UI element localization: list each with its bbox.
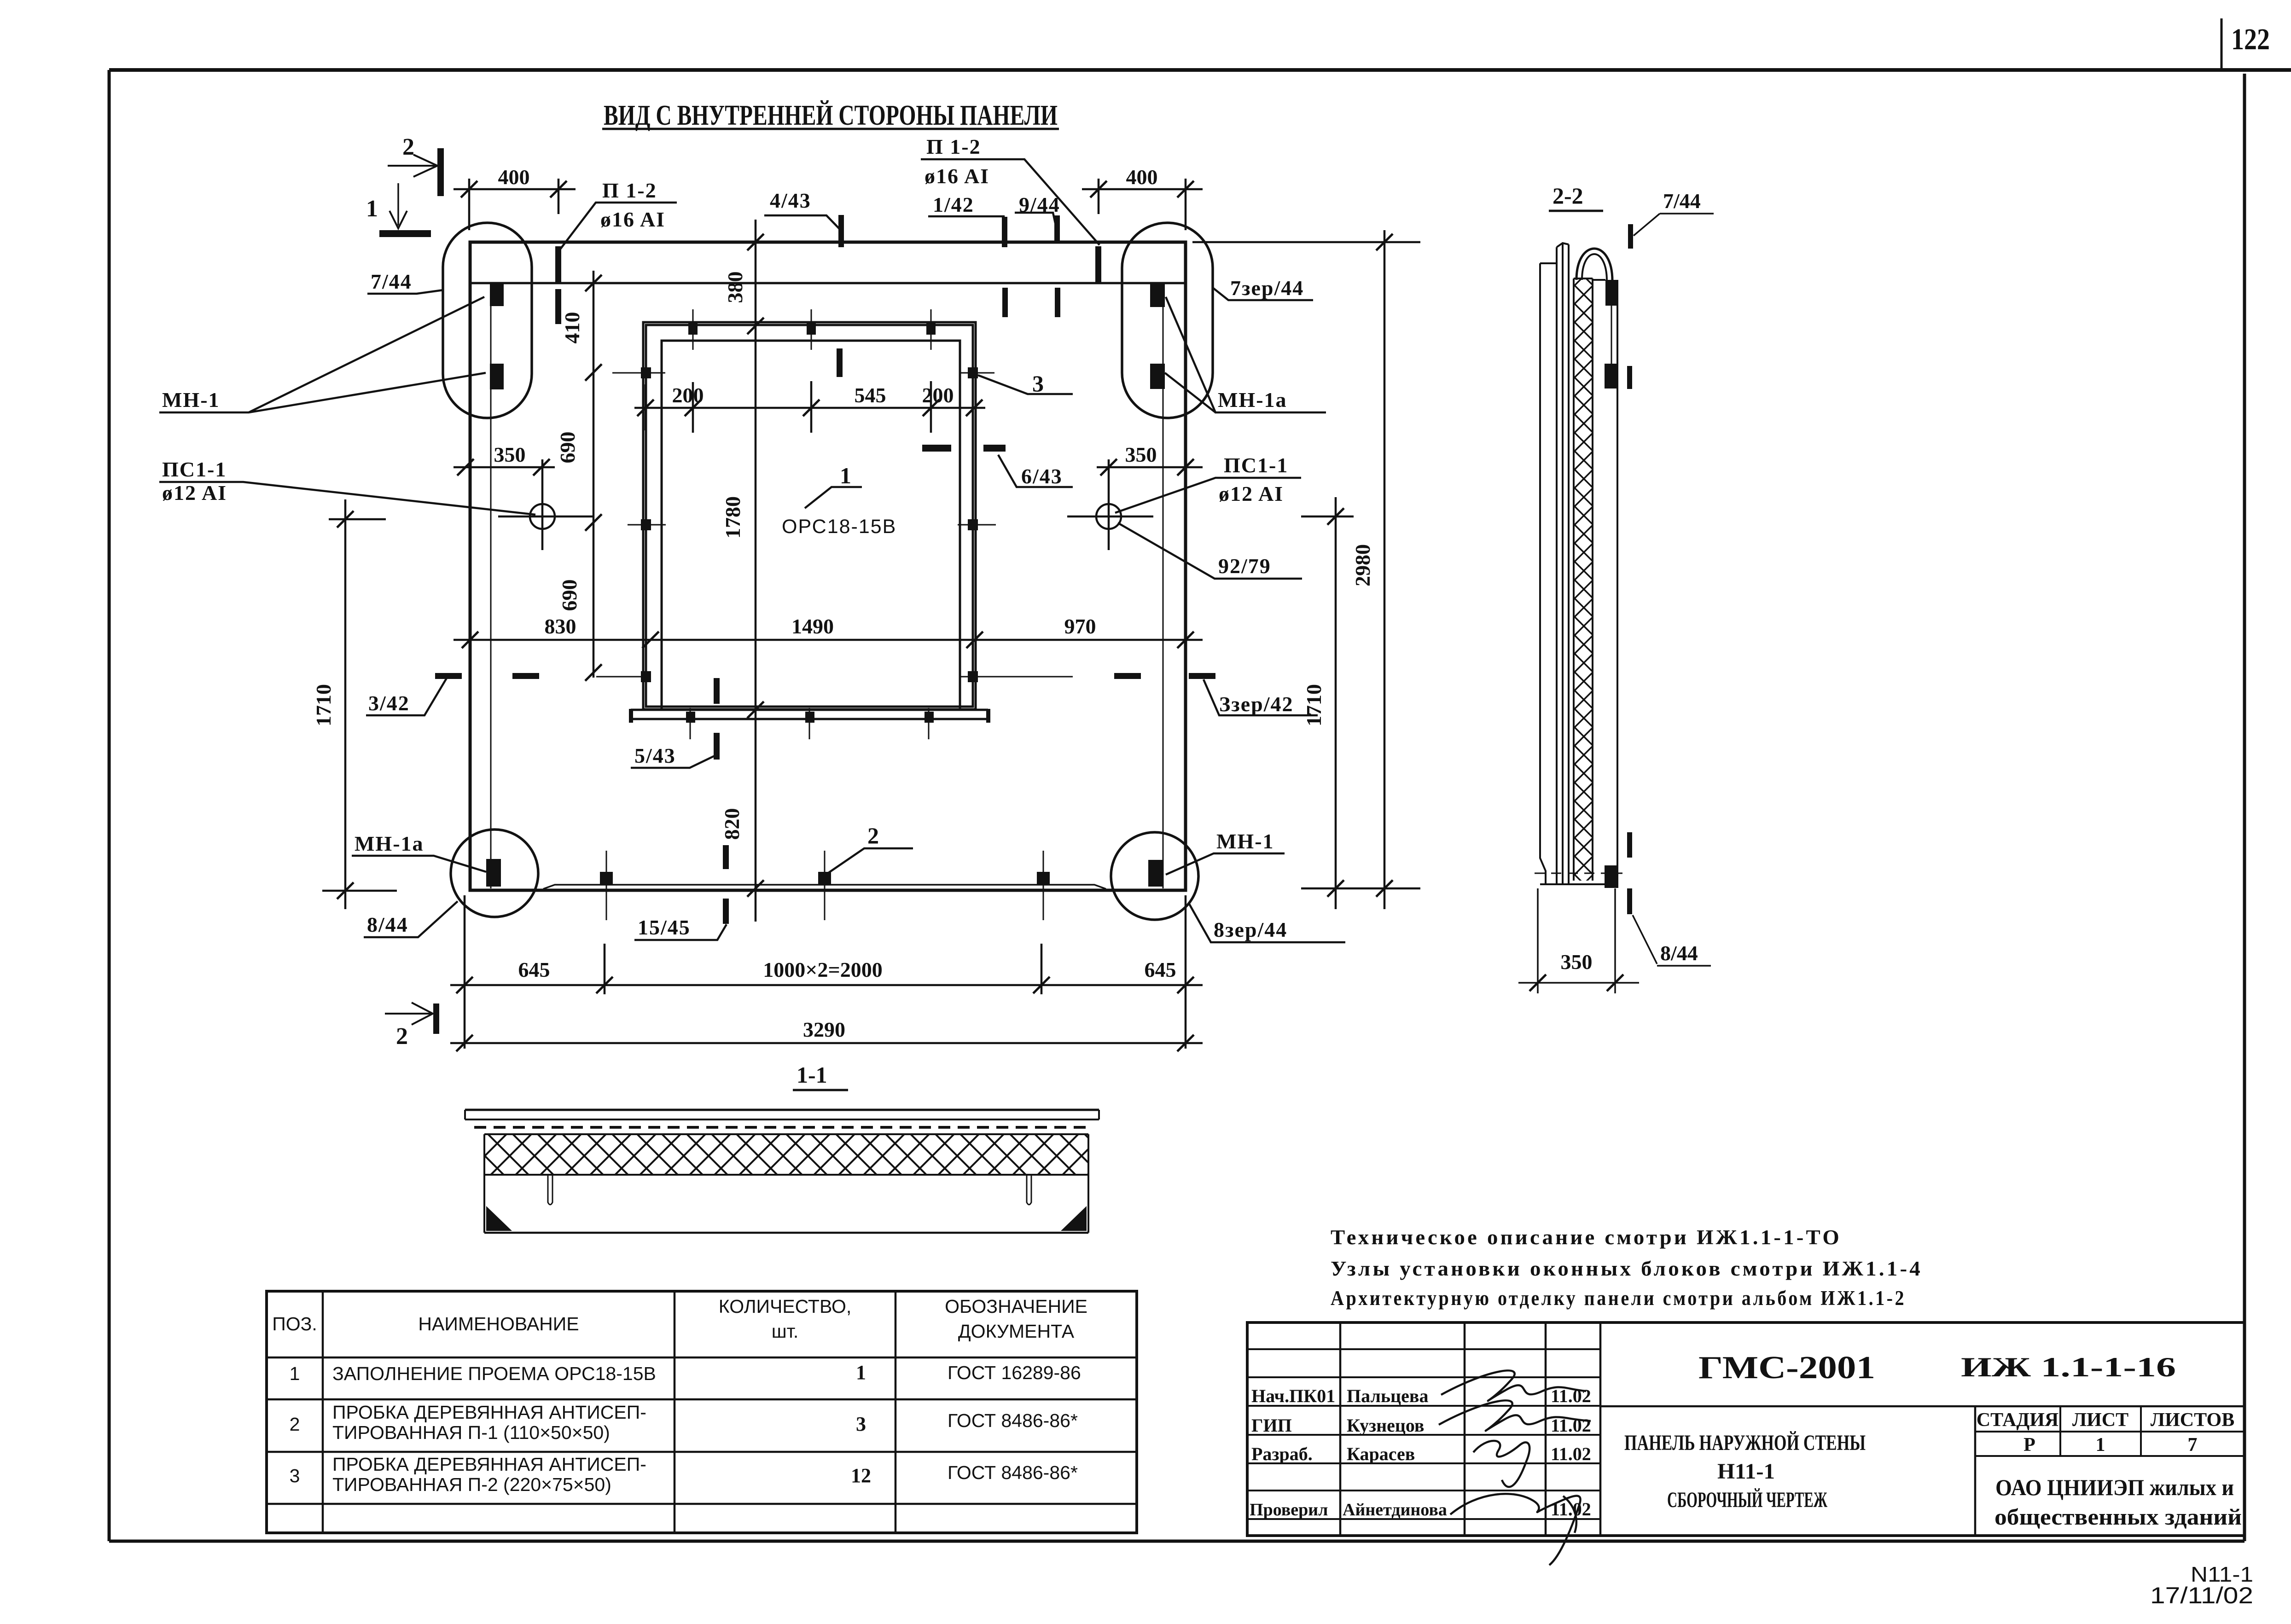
svg-text:ПАНЕЛЬ НАРУЖНОЙ СТЕНЫ: ПАНЕЛЬ НАРУЖНОЙ СТЕНЫ [1624, 1431, 1866, 1455]
svg-text:шт.: шт. [772, 1321, 799, 1342]
svg-text:7/44: 7/44 [371, 270, 412, 293]
svg-text:общественных зданий: общественных зданий [1994, 1504, 2242, 1530]
svg-text:11.02: 11.02 [1551, 1444, 1591, 1464]
svg-text:ГОСТ 16289-86: ГОСТ 16289-86 [948, 1362, 1081, 1383]
svg-text:ГОСТ 8486-86*: ГОСТ 8486-86* [948, 1410, 1078, 1431]
svg-text:МН-1: МН-1 [162, 388, 220, 412]
svg-text:200: 200 [672, 383, 704, 407]
svg-text:3/42: 3/42 [368, 691, 410, 715]
svg-text:12: 12 [851, 1464, 871, 1487]
svg-text:СБОРОЧНЫЙ ЧЕРТЕЖ: СБОРОЧНЫЙ ЧЕРТЕЖ [1667, 1488, 1827, 1512]
svg-text:МН-1: МН-1 [1216, 829, 1274, 853]
svg-text:ПОЗ.: ПОЗ. [272, 1313, 317, 1334]
svg-text:350: 350 [1561, 950, 1593, 974]
svg-text:830: 830 [545, 615, 576, 638]
svg-text:122: 122 [2231, 23, 2270, 56]
svg-text:6/43: 6/43 [1021, 464, 1063, 488]
svg-text:1000×2=2000: 1000×2=2000 [763, 958, 882, 981]
svg-text:2-2: 2-2 [1553, 183, 1583, 209]
svg-text:1780: 1780 [721, 496, 744, 539]
svg-text:ТИРОВАННАЯ П-2 (220×75×50): ТИРОВАННАЯ П-2 (220×75×50) [332, 1474, 611, 1495]
svg-text:645: 645 [518, 958, 550, 981]
svg-text:1710: 1710 [1302, 684, 1326, 726]
svg-text:КОЛИЧЕСТВО,: КОЛИЧЕСТВО, [719, 1296, 851, 1317]
svg-text:3: 3 [1032, 371, 1045, 396]
svg-text:690: 690 [558, 580, 581, 611]
svg-text:92/79: 92/79 [1218, 554, 1271, 578]
svg-text:П 1-2: П 1-2 [926, 135, 981, 158]
svg-text:1490: 1490 [791, 615, 834, 638]
svg-text:ОАО ЦНИИЭП жилых и: ОАО ЦНИИЭП жилых и [1995, 1474, 2234, 1500]
svg-text:ЛИСТОВ: ЛИСТОВ [2151, 1409, 2234, 1431]
svg-text:2: 2 [396, 1023, 408, 1050]
svg-text:4/43: 4/43 [770, 189, 811, 212]
svg-text:1: 1 [366, 196, 378, 222]
svg-text:ø16 AI: ø16 AI [925, 164, 989, 188]
svg-text:7/44: 7/44 [1663, 189, 1701, 213]
svg-text:ОРС18-15В: ОРС18-15В [782, 516, 896, 538]
svg-text:ЗАПОЛНЕНИЕ ПРОЕМА ОРС18-15В: ЗАПОЛНЕНИЕ ПРОЕМА ОРС18-15В [332, 1363, 656, 1384]
svg-text:645: 645 [1145, 958, 1176, 981]
svg-text:Разраб.: Разраб. [1251, 1444, 1313, 1464]
svg-text:Архитектурную отделку панели с: Архитектурную отделку панели смотри альб… [1331, 1287, 1906, 1310]
svg-text:Ззер/42: Ззер/42 [1219, 692, 1294, 716]
svg-text:НАИМЕНОВАНИЕ: НАИМЕНОВАНИЕ [418, 1313, 579, 1334]
svg-text:ø16 AI: ø16 AI [600, 208, 665, 231]
svg-text:1-1: 1-1 [797, 1062, 827, 1088]
svg-text:970: 970 [1064, 615, 1096, 638]
svg-text:П 1-2: П 1-2 [602, 179, 657, 202]
svg-text:ИЖ 1.1-1-16: ИЖ 1.1-1-16 [1961, 1352, 2176, 1382]
svg-text:350: 350 [1125, 443, 1157, 466]
svg-text:545: 545 [855, 383, 886, 407]
svg-text:ТИРОВАННАЯ П-1 (110×50×50): ТИРОВАННАЯ П-1 (110×50×50) [332, 1422, 610, 1443]
svg-text:ОБОЗНАЧЕНИЕ: ОБОЗНАЧЕНИЕ [945, 1296, 1087, 1317]
svg-text:1: 1 [290, 1363, 300, 1384]
svg-text:1/42: 1/42 [933, 193, 974, 216]
svg-text:400: 400 [498, 165, 530, 189]
svg-text:Пальцева: Пальцева [1347, 1386, 1428, 1406]
svg-text:ДОКУМЕНТА: ДОКУМЕНТА [958, 1321, 1075, 1342]
svg-text:7: 7 [2188, 1434, 2198, 1456]
svg-text:ГМС-2001: ГМС-2001 [1698, 1350, 1875, 1386]
svg-text:5/43: 5/43 [634, 744, 676, 767]
svg-text:ПРОБКА ДЕРЕВЯННАЯ АНТИСЕП-: ПРОБКА ДЕРЕВЯННАЯ АНТИСЕП- [332, 1402, 646, 1423]
svg-text:Нач.ПК01: Нач.ПК01 [1251, 1386, 1335, 1406]
svg-text:17/11/02: 17/11/02 [2150, 1583, 2253, 1608]
svg-text:8/44: 8/44 [1660, 941, 1698, 965]
svg-text:Айнетдинова: Айнетдинова [1343, 1500, 1447, 1520]
svg-text:ø12 AI: ø12 AI [1219, 482, 1284, 505]
svg-text:ø12 AI: ø12 AI [162, 481, 227, 505]
svg-text:ГОСТ 8486-86*: ГОСТ 8486-86* [948, 1462, 1078, 1483]
svg-text:1: 1 [856, 1361, 866, 1384]
svg-text:8/44: 8/44 [367, 913, 408, 936]
svg-text:Кузнецов: Кузнецов [1347, 1415, 1425, 1436]
svg-text:820: 820 [720, 808, 744, 840]
svg-text:СТАДИЯ: СТАДИЯ [1977, 1409, 2058, 1431]
svg-text:ПС1-1: ПС1-1 [162, 458, 227, 481]
svg-text:Узлы установки оконных блоков: Узлы установки оконных блоков смотри ИЖ1… [1331, 1257, 1923, 1280]
svg-text:ВИД С ВНУТРЕННЕЙ СТОРОНЫ ПАНЕЛ: ВИД С ВНУТРЕННЕЙ СТОРОНЫ ПАНЕЛИ [604, 100, 1058, 131]
svg-text:Техническое описание смотри ИЖ: Техническое описание смотри ИЖ1.1-1-ТО [1331, 1226, 1842, 1249]
svg-text:410: 410 [560, 312, 584, 344]
svg-text:ЛИСТ: ЛИСТ [2072, 1409, 2128, 1431]
svg-text:1710: 1710 [312, 684, 335, 726]
svg-text:200: 200 [922, 383, 954, 407]
svg-text:Карасев: Карасев [1347, 1444, 1415, 1464]
svg-text:380: 380 [723, 272, 747, 303]
svg-text:2: 2 [290, 1414, 300, 1435]
svg-text:Н11-1: Н11-1 [1717, 1459, 1775, 1484]
svg-text:690: 690 [556, 432, 579, 464]
svg-text:2: 2 [867, 823, 880, 848]
svg-text:3290: 3290 [803, 1018, 845, 1041]
svg-text:350: 350 [494, 443, 526, 466]
svg-text:ПРОБКА ДЕРЕВЯННАЯ АНТИСЕП-: ПРОБКА ДЕРЕВЯННАЯ АНТИСЕП- [332, 1454, 646, 1475]
svg-text:МН-1а: МН-1а [355, 832, 424, 855]
svg-text:Р: Р [2024, 1434, 2035, 1456]
svg-text:МН-1а: МН-1а [1218, 388, 1287, 412]
svg-text:8зер/44: 8зер/44 [1214, 918, 1287, 941]
svg-text:2980: 2980 [1351, 544, 1374, 586]
svg-text:3: 3 [856, 1413, 866, 1435]
svg-text:3: 3 [290, 1465, 300, 1486]
svg-text:Проверил: Проверил [1250, 1500, 1328, 1520]
svg-text:7зер/44: 7зер/44 [1230, 276, 1304, 300]
svg-text:9/44: 9/44 [1019, 193, 1060, 216]
svg-text:2: 2 [402, 134, 414, 160]
svg-text:1: 1 [840, 463, 852, 488]
svg-text:400: 400 [1126, 165, 1158, 189]
svg-text:ПС1-1: ПС1-1 [1224, 453, 1288, 477]
svg-text:15/45: 15/45 [638, 916, 691, 939]
svg-text:ГИП: ГИП [1251, 1415, 1292, 1436]
svg-text:1: 1 [2096, 1434, 2105, 1456]
